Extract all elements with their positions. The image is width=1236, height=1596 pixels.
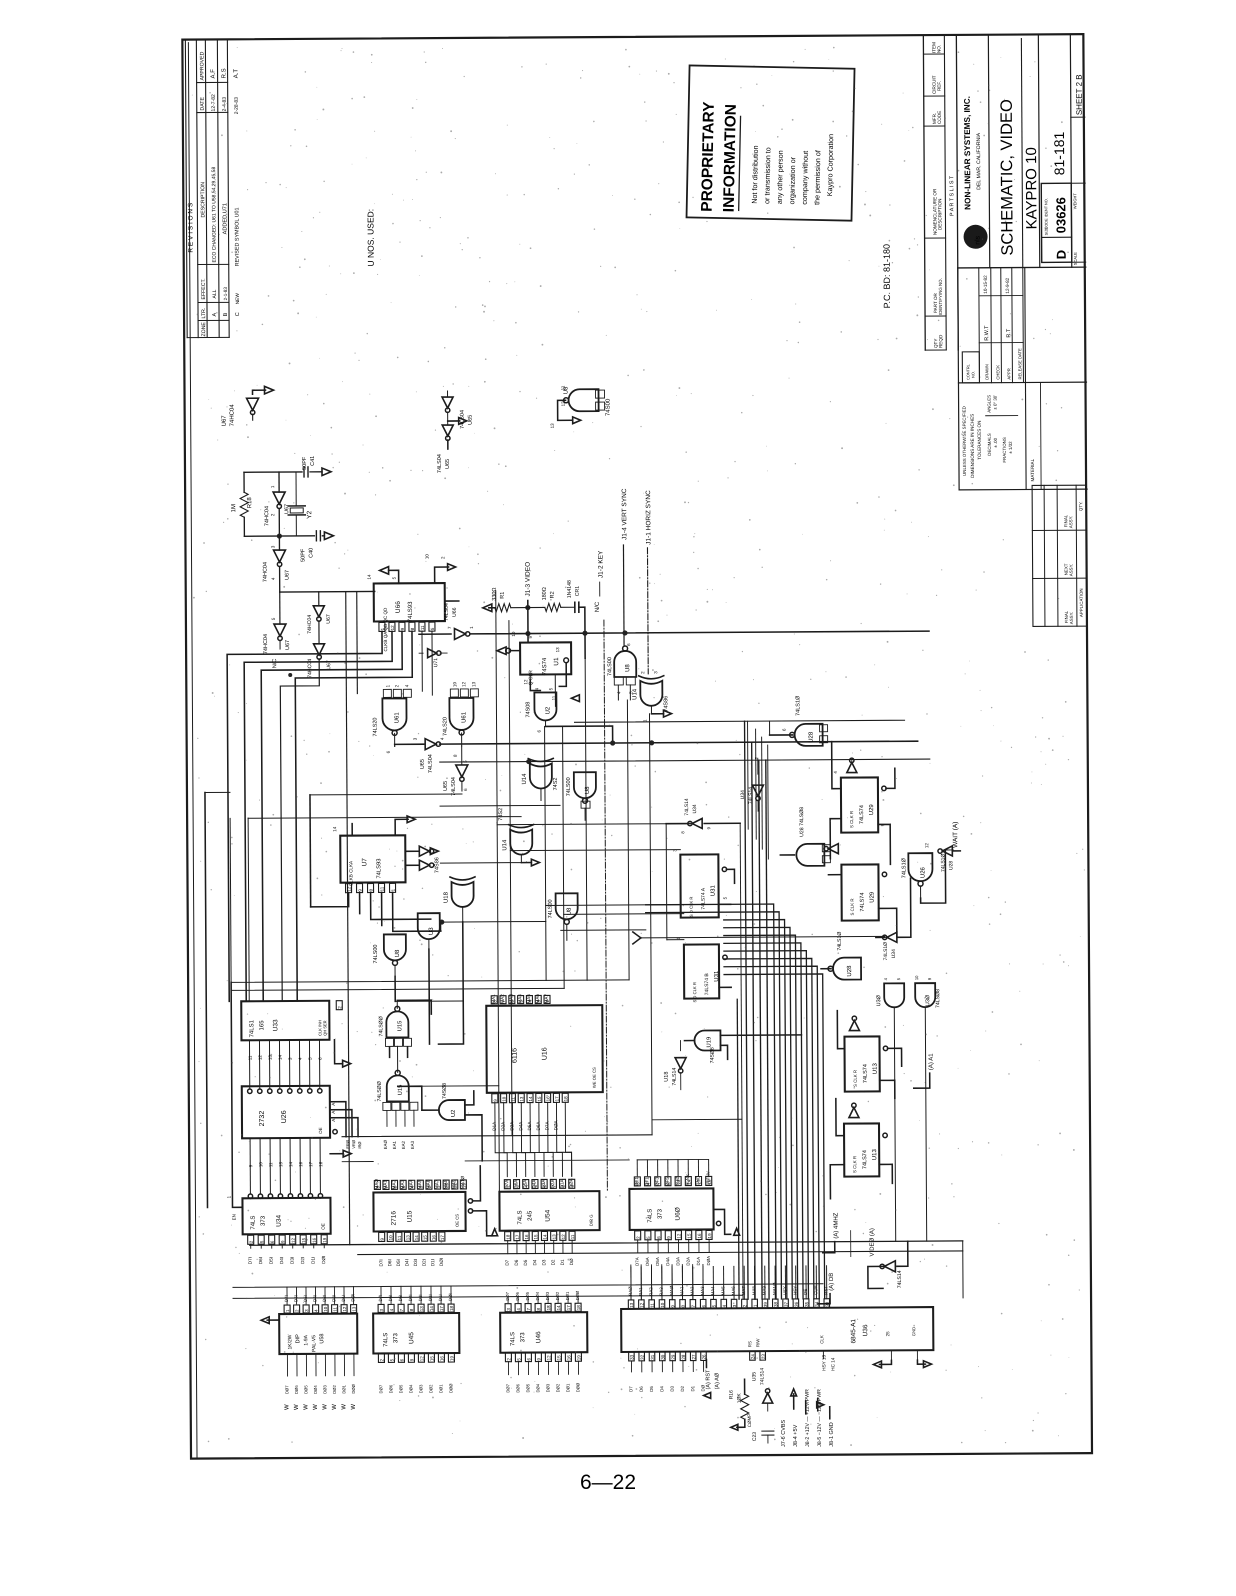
svg-text:U66: U66 [395, 601, 402, 613]
svg-text:U31: U31 [714, 970, 720, 982]
svg-text:D4I: D4I [279, 1257, 284, 1264]
svg-text:PROPRIETARY: PROPRIETARY [699, 101, 718, 212]
svg-text:74LS1Ø: 74LS1Ø [795, 695, 801, 716]
svg-text:J8-4 +5V: J8-4 +5V [793, 1424, 799, 1447]
svg-text:D2: D2 [680, 1385, 685, 1391]
svg-text:DØ6: DØ6 [515, 1383, 520, 1392]
svg-text:A.F: A.F [211, 69, 217, 79]
label HSY HC [821, 1354, 835, 1370]
svg-text:74S2: 74S2 [553, 778, 559, 791]
svg-text:D6A: D6A [536, 1121, 541, 1131]
svg-text:± 1/32: ± 1/32 [1008, 441, 1013, 454]
svg-text:19: 19 [576, 1355, 581, 1361]
inverter U34 74LS14 a [666, 798, 740, 834]
svg-text:12: 12 [347, 886, 352, 892]
svg-text:U66: U66 [452, 607, 458, 617]
svg-text:30: 30 [660, 1354, 665, 1360]
svg-text:D4: D4 [532, 1259, 537, 1265]
flip-flop U13 74LS74 A [837, 1010, 902, 1098]
svg-text:14: 14 [332, 826, 337, 832]
svg-text:DØ7: DØ7 [505, 1291, 510, 1300]
inverter U71 74LS04 [419, 649, 447, 668]
svg-text:DØ: DØ [569, 1258, 574, 1265]
svg-text:P.C. BD: 81-180: P.C. BD: 81-180 [882, 244, 892, 308]
svg-text:D3A: D3A [509, 1121, 514, 1131]
svg-text:D4I: D4I [404, 1259, 409, 1266]
svg-text:GND: GND [911, 1327, 916, 1336]
svg-text:J8-2 +12V — +12V/PWR: J8-2 +12V — +12V/PWR [805, 1389, 811, 1447]
svg-text:10: 10 [660, 1302, 665, 1308]
svg-text:14: 14 [278, 1055, 283, 1061]
svg-text:DØØ: DØØ [351, 1383, 356, 1393]
svg-text:DØ4: DØ4 [535, 1383, 540, 1392]
svg-text:D5I: D5I [396, 1259, 401, 1266]
svg-text:CLK: CLK [819, 1335, 824, 1344]
svg-text:DØI: DØI [321, 1256, 326, 1264]
svg-text:DØ4: DØ4 [313, 1385, 318, 1394]
svg-text:D2: D2 [551, 1259, 556, 1265]
svg-text:APPLICATION: APPLICATION [1079, 588, 1084, 617]
svg-text:DØ5: DØ5 [303, 1385, 308, 1394]
svg-text:74LS74: 74LS74 [860, 893, 866, 912]
svg-text:DØ5: DØ5 [525, 1291, 530, 1300]
svg-text:ZONE: ZONE [201, 322, 207, 337]
svg-text:R16: R16 [729, 1390, 735, 1399]
title block - drawing number [1040, 35, 1085, 267]
svg-text:6116: 6116 [512, 1048, 519, 1063]
svg-text:12-9-82: 12-9-82 [1005, 277, 1010, 293]
svg-text:74SØ8: 74SØ8 [442, 1083, 448, 1099]
svg-text:16: 16 [431, 1235, 436, 1241]
inverter U34 74LS14 down [740, 758, 764, 811]
svg-text:U26: U26 [920, 866, 926, 878]
svg-text:33: 33 [629, 1354, 634, 1360]
svg-text:U34: U34 [692, 804, 698, 813]
svg-text:DESCRIPTION: DESCRIPTION [200, 182, 206, 218]
svg-text:organization or: organization or [787, 156, 797, 204]
svg-text:A: A [331, 1103, 336, 1106]
svg-text:18: 18 [576, 1305, 581, 1311]
svg-text:ANGLES: ANGLES [987, 395, 992, 413]
svg-text:74LS93: 74LS93 [408, 601, 414, 622]
svg-text:U1: U1 [553, 657, 560, 666]
svg-text:74LS00: 74LS00 [566, 777, 572, 796]
svg-text:NO.: NO. [971, 371, 975, 378]
svg-text:10: 10 [425, 554, 430, 560]
svg-text:DØ6: DØ6 [388, 1384, 393, 1393]
wire - data bus horizontal runs [233, 1241, 963, 1302]
svg-text:13: 13 [405, 1235, 410, 1241]
svg-text:EN: EN [232, 1214, 237, 1220]
capacitor C40 50PF [244, 531, 333, 563]
latch U45 74LS373 [373, 1286, 460, 1394]
svg-text:D6I: D6I [293, 1295, 298, 1302]
svg-text:HC 14: HC 14 [830, 1357, 835, 1370]
svg-text:U7: U7 [361, 858, 368, 867]
svg-text:J1-1 HORIZ SYNC: J1-1 HORIZ SYNC [645, 490, 652, 545]
svg-text:33: 33 [825, 1301, 830, 1307]
wire - vertical trunks center [496, 590, 653, 1192]
svg-text:74S86: 74S86 [663, 696, 669, 712]
gate U18 74S86 [434, 857, 475, 922]
svg-text:C: C [235, 312, 241, 316]
svg-text:R.T: R.T [1006, 328, 1012, 338]
video RAM U16 6116 [486, 993, 603, 1177]
flip-flop U1 74S74 [497, 631, 579, 707]
svg-text:13: 13 [352, 1306, 357, 1312]
wire - counter outputs to bus [227, 631, 434, 1001]
flip-flop U13 74LS74 B [830, 1098, 893, 1198]
svg-text:U61: U61 [394, 712, 400, 724]
inverter U34 74LS14 c [875, 878, 911, 960]
svg-text:CODE IDENT NO.: CODE IDENT NO. [1044, 198, 1048, 229]
svg-text:OE: OE [318, 1127, 323, 1134]
connector J1-4 VERT SYNC [621, 488, 629, 645]
svg-text:MA8: MA8 [751, 1286, 756, 1296]
svg-text:U31: U31 [711, 885, 717, 897]
gate U30 74LS08 b [914, 975, 943, 1241]
gate U26 74LS10 wait [901, 842, 945, 903]
svg-text:U NOS. USED:: U NOS. USED: [365, 209, 375, 267]
svg-text:N/C: N/C [595, 601, 601, 612]
svg-text:17: 17 [515, 1234, 520, 1240]
svg-text:12: 12 [291, 1237, 296, 1243]
svg-text:12-7-82: 12-7-82 [211, 94, 217, 111]
flip-flop U29 74LS74 A [830, 741, 896, 864]
svg-text:NO.: NO. [936, 45, 941, 53]
svg-text:74LS: 74LS [518, 1210, 524, 1224]
svg-text:U71: U71 [433, 658, 439, 667]
parts list table [923, 36, 958, 350]
svg-text:C40: C40 [308, 548, 314, 558]
svg-text:DØ1: DØ1 [565, 1383, 570, 1392]
svg-text:MATERIAL: MATERIAL [1030, 458, 1035, 481]
svg-text:DØ7: DØ7 [378, 1384, 383, 1393]
svg-text:DØI: DØI [439, 1258, 444, 1266]
svg-text:EAØ: EAØ [383, 1140, 388, 1150]
svg-text:RA1: RA1 [638, 1287, 643, 1296]
svg-text:DØ5: DØ5 [525, 1383, 530, 1392]
svg-text:13: 13 [471, 681, 476, 687]
svg-text:DRAWN: DRAWN [984, 364, 989, 380]
wire - horizontal control run 1 [419, 628, 929, 636]
svg-text:18: 18 [563, 1096, 568, 1102]
svg-text:23: 23 [761, 1354, 766, 1360]
svg-text:2-1-83: 2-1-83 [223, 287, 228, 301]
svg-text:DØ2: DØ2 [555, 1383, 560, 1392]
svg-text:D3I: D3I [290, 1257, 295, 1264]
svg-text:10: 10 [258, 1162, 263, 1168]
svg-text:15: 15 [687, 1233, 692, 1239]
svg-text:Not for distribution: Not for distribution [750, 145, 760, 203]
svg-text:W: W [284, 1404, 290, 1410]
svg-text:ALL: ALL [212, 289, 218, 298]
svg-text:74HC04: 74HC04 [307, 615, 313, 634]
svg-text:U8: U8 [395, 949, 401, 957]
gate U14 74S86 b [498, 808, 539, 866]
svg-text:36: 36 [794, 1301, 799, 1307]
svg-text:17: 17 [308, 1161, 313, 1167]
svg-text:RA3: RA3 [659, 1287, 664, 1296]
svg-text:17: 17 [439, 1306, 444, 1312]
svg-text:VIDEØ (A): VIDEØ (A) [870, 1228, 876, 1256]
svg-text:18: 18 [318, 1161, 323, 1167]
svg-text:27: 27 [691, 1354, 696, 1360]
svg-text:ASSY.: ASSY. [1069, 564, 1074, 576]
svg-text:MA7: MA7 [741, 1286, 746, 1296]
svg-text:SCALE: SCALE [1073, 252, 1078, 265]
svg-text:DØØ: DØØ [575, 1382, 580, 1392]
svg-text:13: 13 [552, 1234, 557, 1240]
gate U8 74LS00 d [566, 772, 596, 820]
label WAIT(A) [945, 822, 959, 850]
svg-text:15: 15 [537, 1096, 542, 1102]
svg-text:D2I: D2I [422, 1259, 427, 1266]
inverter U65 74LS04 pair [437, 391, 475, 473]
svg-text:W: W [313, 1404, 319, 1410]
svg-text:(A) DB: (A) DB [829, 1273, 835, 1291]
svg-text:19: 19 [461, 1182, 466, 1188]
svg-text:CR1: CR1 [575, 586, 581, 597]
svg-text:13: 13 [555, 647, 560, 653]
EPROM U26 2732 [242, 1086, 338, 1139]
svg-text:74LS74 B: 74LS74 B [704, 973, 710, 996]
gate U8 74LS00 sync [607, 643, 636, 700]
svg-text:C41: C41 [310, 456, 316, 466]
label (A)DB [818, 1273, 835, 1304]
note P.C. BD: 81-180 [882, 244, 892, 308]
svg-text:MA2: MA2 [690, 1286, 695, 1296]
svg-text:373: 373 [261, 1215, 267, 1226]
svg-text:DØ4: DØ4 [535, 1291, 540, 1300]
svg-text:D5A: D5A [655, 1257, 660, 1266]
svg-text:U16: U16 [542, 1047, 549, 1060]
svg-text:S CLK R: S CLK R [852, 1156, 857, 1173]
svg-text:D5: D5 [649, 1386, 654, 1392]
svg-text:U45: U45 [408, 1332, 415, 1344]
svg-text:NEW: NEW [235, 293, 241, 305]
svg-text:DESCRIPTION: DESCRIPTION [937, 199, 942, 230]
svg-text:15: 15 [429, 1356, 434, 1362]
svg-text:D6A: D6A [645, 1257, 650, 1266]
svg-text:10: 10 [502, 1096, 507, 1102]
svg-text:11: 11 [268, 1162, 273, 1167]
svg-text:11: 11 [510, 1096, 515, 1101]
inverter U66 74LS04 clock [444, 603, 474, 640]
svg-text:16: 16 [524, 1234, 529, 1240]
svg-text:D1: D1 [690, 1385, 695, 1391]
svg-text:U36: U36 [862, 1324, 869, 1336]
svg-text:373: 373 [520, 1332, 526, 1343]
title block - application table [1032, 485, 1087, 626]
svg-text:16: 16 [439, 1356, 444, 1362]
inverter U18 74LS14 b [663, 1041, 686, 1090]
svg-text:10: 10 [323, 1306, 328, 1312]
svg-text:15: 15 [423, 1235, 428, 1241]
capacitor C41 50PF [244, 456, 331, 478]
svg-text:CODE: CODE [937, 111, 942, 124]
svg-text:12: 12 [546, 1355, 551, 1361]
label (A)4MHZ [823, 1212, 840, 1252]
svg-text:1-9A: 1-9A [303, 1334, 309, 1345]
resistor pack U58 DIP [261, 1287, 357, 1355]
svg-text:U67: U67 [222, 415, 228, 427]
gate U8 74S00 spare [549, 385, 611, 429]
svg-text:74LS: 74LS [383, 1333, 389, 1347]
svg-text:U19: U19 [706, 1037, 712, 1048]
svg-text:D6: D6 [514, 1259, 519, 1265]
wire - EA bus to ROM [342, 1135, 652, 1162]
inverter U35 74LS14 [746, 1368, 772, 1428]
svg-text:DØ6: DØ6 [515, 1291, 520, 1300]
svg-text:11: 11 [650, 1303, 655, 1308]
svg-text:U2: U2 [545, 706, 551, 714]
wire - horizontal feeders right [666, 823, 743, 1299]
svg-text:D7: D7 [505, 1259, 510, 1265]
svg-text:14: 14 [367, 574, 372, 580]
svg-text:U34: U34 [276, 1215, 283, 1227]
svg-text:(A) A1: (A) A1 [929, 1053, 935, 1070]
svg-text:74S86: 74S86 [434, 857, 440, 873]
svg-text:34: 34 [814, 1301, 819, 1307]
svg-text:any other person: any other person [775, 150, 785, 204]
svg-text:D1A: D1A [492, 1121, 497, 1131]
svg-text:U14: U14 [502, 839, 508, 851]
svg-text:company without: company without [800, 151, 810, 205]
svg-text:D6I: D6I [388, 1295, 393, 1302]
svg-text:74LS20: 74LS20 [443, 717, 449, 736]
svg-text:DATE: DATE [200, 97, 206, 111]
svg-text:S CLK R: S CLK R [850, 898, 855, 915]
svg-text:D6: D6 [639, 1386, 644, 1392]
svg-text:R/W: R/W [755, 1338, 760, 1347]
svg-text:74S00: 74S00 [606, 398, 612, 416]
svg-text:APPROVED: APPROVED [199, 51, 205, 80]
svg-text:12: 12 [258, 1055, 263, 1061]
svg-text:U26: U26 [281, 1110, 288, 1123]
svg-text:DIP: DIP [295, 1334, 301, 1344]
revision table [185, 40, 241, 337]
svg-text:U14: U14 [522, 773, 528, 785]
svg-text:17: 17 [566, 1305, 571, 1311]
svg-text:74LSØØ: 74LSØØ [378, 1016, 384, 1036]
svg-text:18: 18 [506, 1234, 511, 1240]
svg-text:74SØ8: 74SØ8 [710, 1047, 716, 1063]
svg-text:DØA: DØA [553, 1119, 558, 1130]
svg-text:12: 12 [419, 1356, 424, 1362]
svg-text:W: W [322, 1404, 328, 1410]
svg-text:A: A [331, 1119, 336, 1122]
wire - horizontals right block [560, 720, 906, 944]
svg-text:D2I: D2I [331, 1295, 336, 1302]
svg-text:MA6: MA6 [731, 1286, 736, 1296]
svg-text:D: D [1054, 250, 1069, 259]
svg-text:MA9: MA9 [762, 1286, 767, 1296]
svg-text:U13: U13 [873, 1063, 879, 1075]
svg-text:S CLK R: S CLK R [849, 811, 854, 828]
svg-text:U2: U2 [451, 1110, 457, 1117]
svg-text:RST: RST [823, 1286, 828, 1295]
svg-text:81-181: 81-181 [1051, 131, 1067, 175]
svg-text:18: 18 [449, 1306, 454, 1312]
svg-text:17: 17 [440, 1235, 445, 1241]
svg-text:38: 38 [773, 1302, 778, 1308]
svg-text:D4: D4 [659, 1386, 664, 1392]
svg-text:DØ3: DØ3 [545, 1383, 550, 1392]
svg-text:MA3: MA3 [700, 1286, 705, 1296]
svg-text:11: 11 [420, 625, 425, 630]
svg-text:24: 24 [750, 1354, 755, 1360]
svg-text:12: 12 [676, 1233, 681, 1239]
svg-text:DØ1: DØ1 [565, 1291, 570, 1300]
svg-text:22: 22 [453, 1182, 458, 1188]
inverter chain U67 74HC04 [280, 592, 334, 1001]
svg-text:D2I: D2I [428, 1294, 433, 1301]
svg-text:10: 10 [914, 975, 919, 980]
note U NOS. USED [365, 209, 375, 267]
svg-text:DØ6: DØ6 [294, 1385, 299, 1394]
svg-text:180Ω: 180Ω [542, 587, 548, 600]
svg-text:12: 12 [390, 625, 395, 631]
svg-text:OE CS: OE CS [455, 1214, 460, 1227]
wire - U26 pins to U34 [248, 1102, 363, 1199]
svg-text:U28: U28 [847, 965, 853, 977]
svg-text:U18: U18 [664, 1072, 670, 1082]
svg-text:31: 31 [650, 1354, 655, 1360]
svg-text:HSY: HSY [793, 1286, 798, 1295]
counter U66 74LS93 [367, 553, 457, 651]
svg-text:MAØ: MAØ [669, 1285, 674, 1296]
svg-text:74LS04: 74LS04 [437, 454, 443, 473]
svg-text:U58: U58 [319, 1334, 325, 1344]
svg-text:74LS00: 74LS00 [548, 899, 554, 918]
svg-text:12: 12 [523, 679, 528, 685]
inverter U35 74LS14 video [851, 1228, 908, 1289]
flip-flop U29 74LS74 B [824, 843, 961, 937]
svg-text:13: 13 [519, 1096, 524, 1102]
drawing border frame [182, 34, 1092, 1458]
svg-text:CONTRL: CONTRL [966, 364, 970, 380]
svg-text:D4I: D4I [408, 1294, 413, 1301]
svg-text:1M: 1M [231, 504, 237, 512]
svg-text:W: W [351, 1404, 357, 1410]
svg-text:EA2: EA2 [401, 1140, 406, 1149]
svg-text:U35: U35 [752, 1372, 758, 1381]
svg-text:CLKB CLKA: CLKB CLKA [348, 860, 353, 886]
svg-text:CØMP: CØMP [747, 1414, 752, 1428]
svg-text:R2: R2 [550, 591, 556, 598]
svg-text:74LS1: 74LS1 [249, 1019, 255, 1037]
svg-text:J1-2 KEY: J1-2 KEY [597, 550, 604, 578]
svg-text:74HC04: 74HC04 [263, 562, 269, 582]
svg-text:74LS04: 74LS04 [451, 777, 457, 796]
svg-text:74LS04: 74LS04 [428, 754, 434, 773]
svg-text:U34: U34 [891, 949, 897, 958]
svg-text:14: 14 [686, 1179, 691, 1185]
svg-text:18: 18 [707, 1179, 712, 1185]
gate U2 74S08 [525, 687, 612, 744]
svg-text:U67: U67 [285, 640, 291, 650]
inverter U67 74HC04 buffer [262, 536, 290, 592]
svg-text:74LS: 74LS [510, 1332, 516, 1346]
svg-text:14: 14 [556, 1305, 561, 1311]
svg-text:D1I: D1I [430, 1259, 435, 1266]
svg-text:19: 19 [707, 1233, 712, 1239]
gate U14 74S86 sync [632, 671, 671, 722]
gate U2 74S08 b [422, 1083, 482, 1137]
svg-text:N/C: N/C [272, 659, 278, 669]
svg-text:D2A: D2A [501, 1121, 506, 1131]
